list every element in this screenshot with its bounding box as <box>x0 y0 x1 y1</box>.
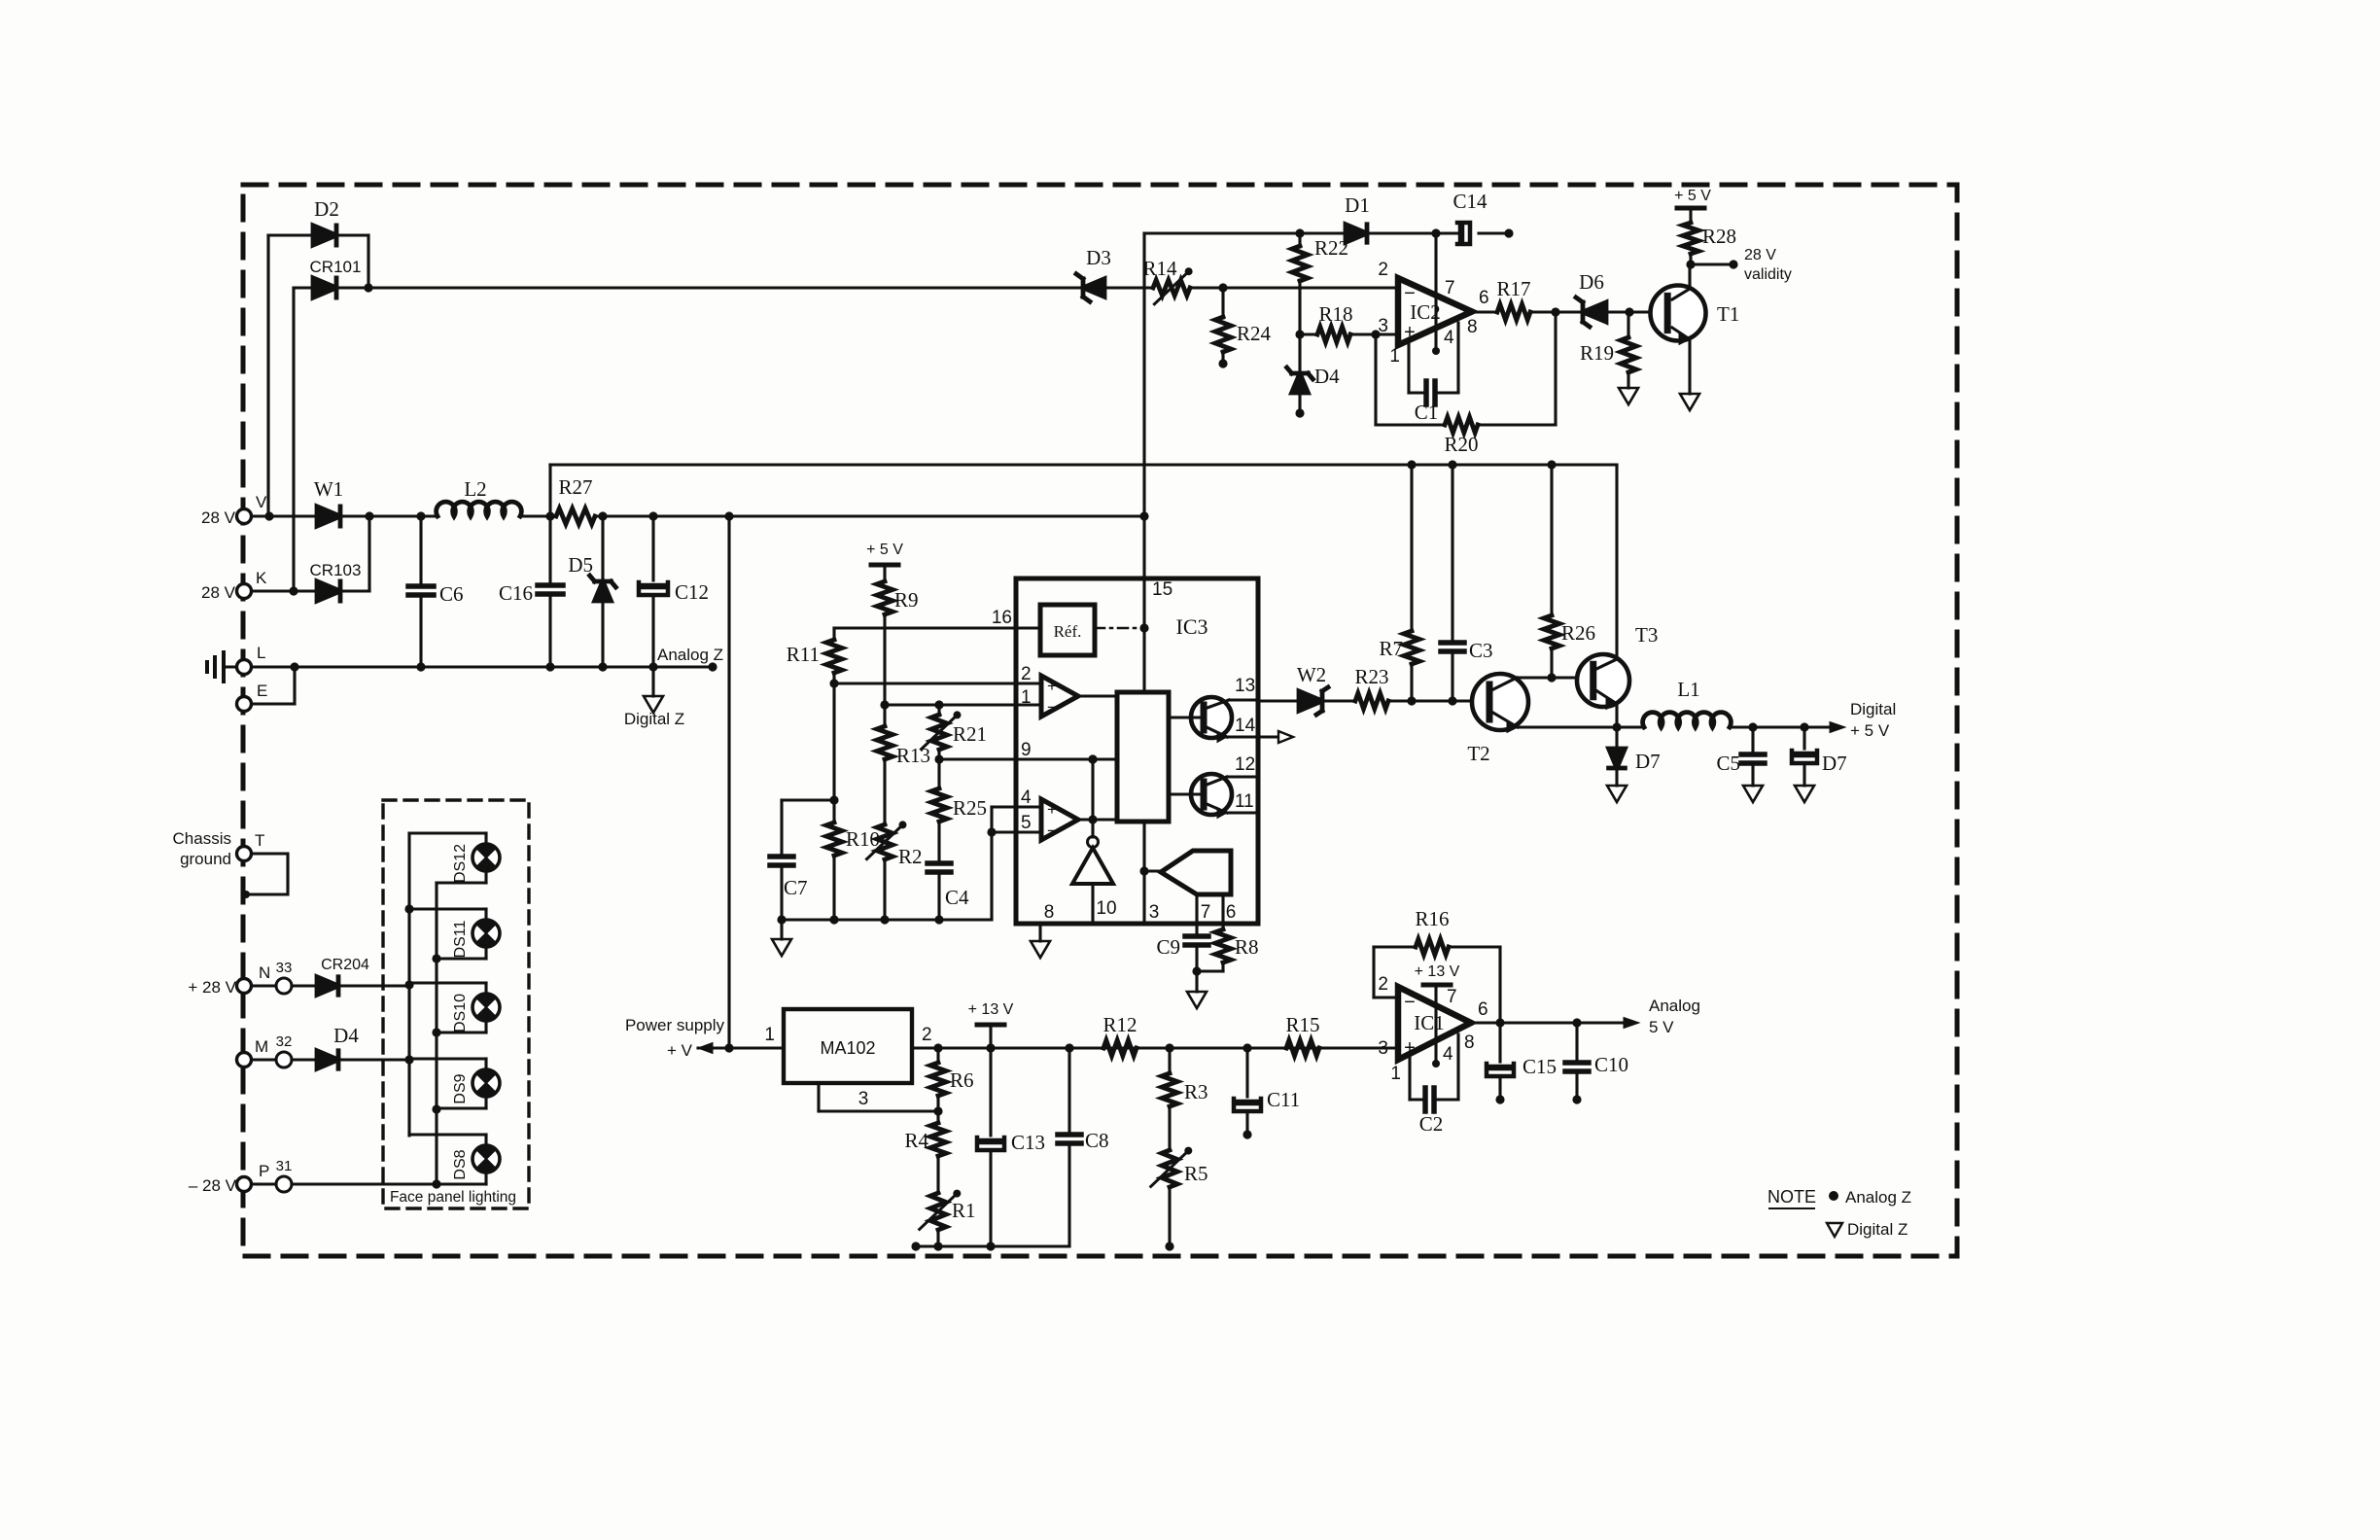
resistor R9 <box>883 565 886 581</box>
svg-text:15: 15 <box>1152 579 1172 600</box>
op-amp IC2 <box>1398 278 1472 345</box>
digital ground under R19 <box>1619 388 1638 404</box>
svg-text:33: 33 <box>276 960 293 976</box>
comparator outputs <box>1078 694 1117 697</box>
zener diode W2 <box>1258 699 1299 702</box>
pin7 to C9 <box>1195 895 1198 935</box>
resistor R15 <box>1286 1040 1319 1056</box>
svg-text:M: M <box>255 1037 268 1056</box>
svg-text:R27: R27 <box>558 475 592 499</box>
arrow analog 5V <box>1624 1018 1639 1029</box>
svg-text:ground: ground <box>180 850 231 868</box>
svg-text:T2: T2 <box>1467 742 1489 765</box>
transistor Q13 in IC3 <box>1191 697 1232 738</box>
svg-text:10: 10 <box>1096 898 1116 919</box>
comparator B <box>1041 799 1078 840</box>
svg-text:C3: C3 <box>1469 639 1493 662</box>
svg-text:R5: R5 <box>1184 1162 1208 1185</box>
resistor R12 <box>1103 1040 1137 1056</box>
lamp DS8 <box>409 1133 486 1136</box>
resistor R25 <box>937 759 940 788</box>
svg-text:28 V: 28 V <box>201 583 236 602</box>
transistor T3 <box>1577 654 1629 707</box>
svg-text:DS11: DS11 <box>452 920 469 958</box>
wire MA102 pin2 to IC1 pin3 <box>912 1046 1398 1049</box>
capacitor C10 <box>1575 1023 1578 1063</box>
resistor R3 <box>1168 1048 1171 1073</box>
pin circle 31 <box>276 1176 292 1192</box>
svg-text:−: − <box>1047 822 1057 840</box>
wire M to D4 <box>252 1058 276 1061</box>
resistor R17 <box>1472 310 1497 313</box>
svg-text:6: 6 <box>1226 902 1237 923</box>
svg-text:C8: C8 <box>1085 1129 1109 1152</box>
capacitor C8 <box>1067 1048 1070 1135</box>
svg-text:R28: R28 <box>1702 225 1736 248</box>
lamp DS10 <box>409 981 486 984</box>
wire N to CR204 <box>252 984 276 987</box>
resistor R13 <box>883 705 886 726</box>
resistor R24 <box>1221 288 1224 318</box>
resistor R7 <box>1410 465 1413 631</box>
inductor L1 <box>1643 713 1732 727</box>
svg-text:11: 11 <box>1235 791 1254 812</box>
Q12 collector pin12 <box>1205 777 1227 786</box>
svg-text:R12: R12 <box>1102 1013 1137 1036</box>
digital ground under C7 <box>780 920 783 939</box>
svg-text:R11: R11 <box>787 643 820 666</box>
capacitor C15 polarized <box>1498 1023 1501 1062</box>
wire pin3 vertical <box>1142 822 1145 924</box>
transistor Q12 in IC3 <box>1191 774 1232 815</box>
svg-text:R14: R14 <box>1142 257 1177 280</box>
wire R27 bypass rail 478 <box>548 465 551 516</box>
svg-text:W1: W1 <box>314 477 343 501</box>
wire R11 to C7 node <box>832 683 835 800</box>
svg-text:C15: C15 <box>1522 1055 1557 1078</box>
svg-text:R7: R7 <box>1379 637 1403 660</box>
terminal L ground <box>237 660 252 675</box>
svg-text:R4: R4 <box>904 1129 928 1152</box>
wire 28V K line <box>252 589 317 592</box>
svg-text:CR204: CR204 <box>321 957 369 973</box>
capacitor C7 <box>782 798 834 801</box>
lamp DS11 <box>409 907 486 910</box>
pin circle 33 <box>276 978 292 994</box>
resistor R16 feedback <box>1374 996 1398 998</box>
terminal T chassis ground <box>237 847 252 861</box>
svg-text:−: − <box>1404 992 1416 1013</box>
arrow digital +5V <box>1830 722 1845 733</box>
capacitor C11 polarized <box>1245 1048 1248 1097</box>
svg-text:validity: validity <box>1744 266 1792 283</box>
variable resistor R2 <box>883 759 886 825</box>
svg-text:2: 2 <box>1378 260 1388 280</box>
capacitor C4 <box>927 860 951 866</box>
pin circle 32 <box>276 1052 292 1067</box>
terminal V 28V input <box>237 509 252 524</box>
+13V bar at IC1 <box>1423 983 1451 988</box>
svg-text:3: 3 <box>1378 1038 1388 1059</box>
resistor R18 <box>1300 332 1317 335</box>
chassis ground hook at T <box>245 854 288 894</box>
svg-text:C6: C6 <box>439 582 464 606</box>
svg-text:R9: R9 <box>894 588 919 612</box>
svg-text:Power supply: Power supply <box>625 1016 725 1034</box>
svg-text:5: 5 <box>1021 813 1032 833</box>
diode D1 <box>1346 225 1367 242</box>
svg-text:IC3: IC3 <box>1176 614 1208 639</box>
wire V to D2 <box>266 235 269 516</box>
svg-text:+ 13 V: + 13 V <box>1415 963 1460 980</box>
svg-text:L1: L1 <box>1677 678 1699 701</box>
svg-text:R10: R10 <box>846 827 880 851</box>
Q13 emitter pin14 <box>1205 726 1227 737</box>
wire pin16 net <box>834 626 1040 629</box>
diode W1 <box>317 507 340 526</box>
svg-text:7: 7 <box>1445 278 1455 298</box>
svg-text:C10: C10 <box>1594 1053 1628 1076</box>
capacitor C13 polarized <box>989 1048 992 1136</box>
svg-text:R22: R22 <box>1314 236 1348 260</box>
svg-text:−: − <box>1404 283 1416 304</box>
svg-text:K: K <box>256 569 267 587</box>
wire 28V V rail <box>252 514 317 517</box>
wire digital 5V output line <box>1518 725 1644 728</box>
svg-text:13: 13 <box>1235 676 1255 696</box>
svg-text:NOTE: NOTE <box>1767 1187 1816 1207</box>
svg-text:R17: R17 <box>1496 277 1530 300</box>
svg-text:R20: R20 <box>1444 433 1478 456</box>
terminal M <box>237 1053 252 1067</box>
svg-text:1: 1 <box>764 1025 775 1045</box>
board outline dashed border <box>243 185 1957 1256</box>
variable resistor R14 <box>1153 280 1190 296</box>
diode CR101 <box>313 278 336 297</box>
resistor R20 <box>1374 334 1377 425</box>
svg-text:Chassis: Chassis <box>173 829 231 848</box>
terminal K 28V input <box>237 584 252 599</box>
svg-text:Analog Z: Analog Z <box>1845 1188 1911 1207</box>
svg-text:R21: R21 <box>953 722 987 746</box>
svg-text:4: 4 <box>1443 1044 1453 1065</box>
svg-text:3: 3 <box>858 1089 869 1109</box>
svg-text:Réf.: Réf. <box>1054 622 1082 641</box>
svg-text:R1: R1 <box>952 1199 976 1222</box>
T2 emitter <box>1491 712 1518 727</box>
+5V supply bar at R28 <box>1677 206 1704 211</box>
+5V supply bar at R9 <box>871 563 898 568</box>
bottom wire under R1 <box>916 1244 1069 1247</box>
inverter <box>1088 837 1099 848</box>
svg-text:2: 2 <box>1378 974 1388 995</box>
resistor R26 <box>1550 465 1553 615</box>
svg-text:9: 9 <box>1021 740 1032 760</box>
svg-text:C14: C14 <box>1452 190 1487 213</box>
svg-text:R2: R2 <box>898 845 923 868</box>
T1 collector to R28 <box>1672 289 1690 299</box>
svg-text:DS12: DS12 <box>452 844 469 883</box>
svg-text:– 28 V: – 28 V <box>189 1176 237 1195</box>
wire pin5 net <box>990 832 993 920</box>
zener diode D5 <box>601 516 604 581</box>
capacitor C3 <box>1451 465 1453 643</box>
svg-text:+ 13 V: + 13 V <box>968 1001 1014 1018</box>
resistor R28 <box>1683 223 1698 254</box>
svg-text:CR103: CR103 <box>310 561 362 579</box>
wire pin4 net <box>990 807 993 832</box>
svg-text:+ 28 V: + 28 V <box>188 978 236 997</box>
svg-text:−: − <box>1047 698 1057 717</box>
svg-text:D4: D4 <box>1314 365 1340 388</box>
svg-text:+: + <box>1404 322 1416 343</box>
svg-text:C9: C9 <box>1156 935 1180 959</box>
wire pin2 net <box>834 682 1041 684</box>
svg-text:R16: R16 <box>1415 907 1449 930</box>
dash-dot Ref output <box>1095 627 1144 630</box>
op-amp IC1 <box>1398 987 1471 1060</box>
svg-text:+ 5 V: + 5 V <box>866 542 903 558</box>
svg-text:W2: W2 <box>1297 663 1326 686</box>
lamp DS9 <box>409 1057 486 1060</box>
svg-text:2: 2 <box>922 1025 932 1045</box>
svg-text:T3: T3 <box>1635 623 1658 647</box>
diode CR204 <box>317 977 338 995</box>
svg-text:D2: D2 <box>314 197 339 221</box>
capacitor D7 polarized <box>1802 727 1805 749</box>
svg-text:8: 8 <box>1044 902 1055 923</box>
wire pin9 net <box>939 757 1117 760</box>
terminal N +28V <box>237 979 252 994</box>
capacitor C12 polarized <box>651 516 654 580</box>
regulator MA102 <box>784 1009 912 1083</box>
svg-text:D4: D4 <box>333 1024 359 1047</box>
capacitor C6 <box>419 516 422 586</box>
svg-text:R8: R8 <box>1235 935 1259 959</box>
wire CR101 long rail to IC2 pin2 <box>368 286 1079 289</box>
svg-text:P: P <box>259 1162 269 1180</box>
svg-text:2: 2 <box>1021 664 1032 684</box>
lamp DS12 <box>409 831 486 834</box>
svg-text:7: 7 <box>1447 987 1457 1007</box>
T3 emitter <box>1594 689 1617 704</box>
MA102 pin3 tab <box>817 1083 820 1111</box>
variable resistor R5 <box>1162 1150 1177 1187</box>
bottom analog wire <box>782 918 992 921</box>
svg-text:D6: D6 <box>1579 270 1604 294</box>
junction dots on V rail <box>264 511 273 520</box>
variable resistor R1 <box>930 1193 946 1230</box>
svg-text:MA102: MA102 <box>820 1038 875 1058</box>
svg-text:T1: T1 <box>1717 302 1739 326</box>
capacitor C16 <box>548 516 551 585</box>
diode D6 <box>1583 302 1606 322</box>
svg-text:Analog Z: Analog Z <box>657 646 723 664</box>
wire CR103 up to V rail <box>340 589 369 592</box>
T3 collector to rail <box>1594 659 1617 670</box>
svg-text:+ V: + V <box>667 1041 693 1060</box>
wire K to CR101 <box>294 286 313 289</box>
resistor R10 <box>832 800 835 822</box>
terminal P -28V <box>237 1177 252 1192</box>
wire E to L net <box>252 702 295 705</box>
svg-text:Face panel lighting: Face panel lighting <box>390 1189 516 1206</box>
zener diode D4 <box>1298 334 1301 373</box>
wire P to lamp return bus <box>252 1182 276 1185</box>
svg-text:Analog: Analog <box>1649 997 1700 1015</box>
IC2 power pin 7-4 stem <box>1434 233 1437 351</box>
Q13 collector pin13 <box>1205 700 1229 709</box>
inverter input chain <box>1091 759 1094 837</box>
Ref block <box>1040 605 1095 655</box>
wire D1 line <box>1142 233 1145 288</box>
diode D7 <box>1615 727 1618 749</box>
capacitor C9 <box>1185 933 1208 939</box>
wire +V feed <box>727 516 730 1048</box>
ground symbol at L <box>222 652 226 682</box>
svg-text:31: 31 <box>276 1158 293 1174</box>
svg-text:DS8: DS8 <box>452 1149 469 1179</box>
svg-text:D3: D3 <box>1086 246 1111 269</box>
digital ground stub under C12 <box>651 667 654 696</box>
svg-text:R23: R23 <box>1354 665 1388 688</box>
pin6 to R8 <box>1221 895 1224 929</box>
transistor T2 <box>1472 674 1528 730</box>
+13V bar at C13 <box>977 1023 1004 1028</box>
IC3 outline <box>1016 578 1258 924</box>
svg-text:DS10: DS10 <box>452 994 469 1032</box>
T2 collector to T3 base <box>1491 678 1517 690</box>
resistor R6 <box>936 1048 939 1063</box>
terminal E <box>237 697 252 712</box>
resistor R8 <box>1215 929 1231 962</box>
capacitor C5 <box>1751 727 1754 754</box>
capacitor C14 polarized <box>1458 226 1465 241</box>
resistor R4 <box>936 1111 939 1123</box>
svg-text:14: 14 <box>1235 716 1256 736</box>
svg-text:R25: R25 <box>953 796 987 820</box>
svg-text:1: 1 <box>1390 1064 1401 1084</box>
svg-text:28 V: 28 V <box>201 508 236 527</box>
resistor R19 <box>1627 312 1629 338</box>
wire IC1 output <box>1471 1021 1633 1024</box>
wire pin10 <box>1091 884 1094 924</box>
svg-text:Digital Z: Digital Z <box>1847 1220 1907 1239</box>
svg-text:DS9: DS9 <box>452 1073 469 1103</box>
svg-text:32: 32 <box>276 1033 293 1050</box>
svg-text:7: 7 <box>1201 902 1211 923</box>
wire analog ground L line <box>252 665 713 668</box>
power supply +V arrow <box>698 1046 784 1049</box>
svg-text:12: 12 <box>1235 754 1255 775</box>
svg-text:Digital: Digital <box>1850 700 1896 718</box>
svg-text:R3: R3 <box>1184 1080 1208 1103</box>
svg-text:R24: R24 <box>1237 322 1272 345</box>
svg-text:8: 8 <box>1467 317 1478 337</box>
inductor L2 <box>437 502 522 516</box>
svg-text:D7: D7 <box>1635 750 1661 773</box>
svg-text:16: 16 <box>992 608 1012 628</box>
svg-text:8: 8 <box>1464 1032 1475 1053</box>
svg-text:E: E <box>257 682 267 700</box>
svg-text:+ 5 V: + 5 V <box>1850 721 1890 740</box>
Q12 emitter pin11 <box>1205 803 1227 813</box>
svg-text:R19: R19 <box>1580 341 1614 365</box>
capacitor C1 <box>1407 342 1410 393</box>
comparator A <box>1041 676 1078 717</box>
svg-text:C13: C13 <box>1011 1131 1045 1154</box>
svg-text:3: 3 <box>1149 902 1160 923</box>
svg-text:N: N <box>259 963 270 982</box>
svg-text:D1: D1 <box>1345 193 1370 217</box>
svg-text:+: + <box>1047 677 1057 695</box>
svg-text:4: 4 <box>1021 787 1032 808</box>
svg-text:C11: C11 <box>1267 1088 1300 1111</box>
variable resistor R21 <box>937 705 940 716</box>
svg-text:4: 4 <box>1444 328 1454 348</box>
svg-text:R18: R18 <box>1318 302 1352 326</box>
svg-text:6: 6 <box>1479 288 1489 308</box>
svg-text:D7: D7 <box>1822 752 1847 775</box>
resistor R22 <box>1298 233 1301 247</box>
svg-text:C2: C2 <box>1419 1112 1444 1136</box>
resistor R11 <box>832 628 835 640</box>
svg-text:T: T <box>255 831 264 850</box>
resistor R23 <box>1355 693 1388 709</box>
diode D2 <box>313 226 336 245</box>
svg-text:+ 5 V: + 5 V <box>1674 188 1711 204</box>
svg-text:C1: C1 <box>1415 401 1439 424</box>
IC1 power pin stem <box>1434 985 1437 1064</box>
resistor R27 <box>556 508 595 524</box>
svg-text:C4: C4 <box>945 886 969 909</box>
svg-text:IC1: IC1 <box>1414 1011 1445 1034</box>
svg-text:C7: C7 <box>784 876 808 899</box>
output shaper pentagon <box>1161 851 1231 894</box>
diode CR103 <box>317 581 340 601</box>
capacitor C2 <box>1408 1056 1411 1100</box>
svg-text:C16: C16 <box>499 581 533 605</box>
svg-text:R26: R26 <box>1561 621 1595 645</box>
svg-text:V: V <box>256 493 267 511</box>
svg-text:D5: D5 <box>568 553 593 577</box>
zener diode D3 <box>1083 279 1104 297</box>
svg-text:Digital Z: Digital Z <box>624 710 684 728</box>
svg-text:+: + <box>1047 800 1057 819</box>
svg-text:L2: L2 <box>464 477 486 501</box>
svg-text:C5: C5 <box>1716 752 1740 775</box>
svg-text:R15: R15 <box>1285 1013 1319 1036</box>
lamp supply bus A <box>407 833 410 1136</box>
C9 R8 join to digital ground <box>1197 969 1223 972</box>
svg-text:L: L <box>257 644 265 662</box>
T1 emitter to digital ground <box>1672 328 1690 339</box>
wire pin15 vertical <box>1142 516 1145 692</box>
PWM block <box>1117 692 1169 822</box>
diode D4 lamp feed <box>317 1051 338 1068</box>
wire pin1 net <box>885 703 1041 706</box>
svg-text:C12: C12 <box>675 580 709 604</box>
transistor T1 <box>1651 286 1706 341</box>
wire D2 to CR101 node <box>336 233 368 236</box>
svg-text:28 V: 28 V <box>1744 247 1776 263</box>
svg-text:1: 1 <box>1389 346 1400 367</box>
face panel lighting dashed box <box>383 800 529 1208</box>
wire 28V validity <box>1691 262 1732 265</box>
svg-text:5 V: 5 V <box>1649 1018 1674 1036</box>
svg-text:6: 6 <box>1478 999 1488 1020</box>
svg-text:R6: R6 <box>950 1068 974 1092</box>
